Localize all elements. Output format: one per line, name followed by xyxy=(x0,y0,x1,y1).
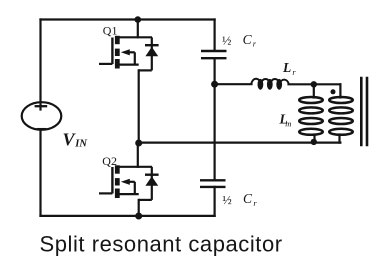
svg-text:IN: IN xyxy=(74,139,87,150)
wire midpoint to transformer bottom xyxy=(139,142,341,144)
inductor Lr xyxy=(251,79,288,90)
transformer polarity dot xyxy=(331,89,336,94)
transformer core bars xyxy=(361,77,367,147)
junction transformer bottom xyxy=(311,139,317,145)
transistor Q2 xyxy=(99,165,159,200)
wire primary bottom stub xyxy=(338,135,340,143)
junction capacitor midpoint xyxy=(211,81,218,88)
wire left rail lower xyxy=(39,129,41,216)
wire primary top stub xyxy=(339,84,341,97)
transformer T1 primary winding xyxy=(329,97,353,135)
svg-text:L: L xyxy=(282,60,291,75)
wire bottom rail xyxy=(41,215,215,217)
label 1/2 Cr top xyxy=(222,32,257,49)
inductor Lm (magnetizing) xyxy=(299,97,323,135)
wire right column top (to capacitor C1) xyxy=(214,20,216,51)
capacitor C1 (1/2 Cr top) xyxy=(201,51,227,58)
svg-text:C: C xyxy=(243,32,253,47)
label 1/2 Cr bottom xyxy=(222,191,257,208)
wire top rail xyxy=(41,18,215,20)
junction top rail / Q1 drain xyxy=(135,16,142,23)
wire Q1 drain xyxy=(137,20,139,38)
wire capacitor junction to Lr xyxy=(215,83,252,85)
wire Q2 source to bottom rail xyxy=(138,200,140,216)
wire Q2 drain xyxy=(137,143,139,167)
wire Lr to transformer top xyxy=(289,83,341,85)
junction transformer top xyxy=(311,81,317,87)
svg-text:½: ½ xyxy=(222,193,231,207)
wire below C2 to bottom rail xyxy=(214,187,216,216)
junction bottom rail / Q2 source xyxy=(135,213,142,220)
junction midpoint node xyxy=(135,140,142,147)
svg-text:½: ½ xyxy=(222,34,231,48)
capacitor C2 (1/2 Cr bottom) xyxy=(200,180,226,187)
wire Lm top stub xyxy=(313,84,315,97)
wire capacitor column middle xyxy=(214,84,216,180)
transistor Q1 xyxy=(99,36,159,71)
wire left rail upper xyxy=(39,20,41,111)
voltage source VIN xyxy=(22,102,62,130)
svg-text:Q1: Q1 xyxy=(103,24,118,38)
svg-text:Q2: Q2 xyxy=(102,154,117,168)
wire between C1 and junction xyxy=(214,59,216,84)
svg-text:C: C xyxy=(243,191,253,206)
wire Lm bottom stub xyxy=(313,135,315,143)
svg-text:Split resonant capacitor: Split resonant capacitor xyxy=(40,232,283,257)
wire Q1 source to midpoint xyxy=(138,70,140,143)
svg-text:m: m xyxy=(285,118,291,128)
